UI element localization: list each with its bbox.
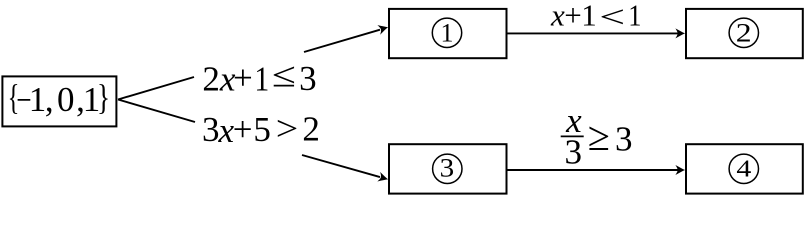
svg-text:x: x [550,0,565,33]
svg-text:3: 3 [615,120,633,159]
svg-text:2: 2 [202,59,220,98]
svg-text:3: 3 [565,133,583,172]
svg-text:4: 4 [736,155,751,182]
svg-text:}: } [97,76,110,117]
svg-text:+: + [233,59,253,98]
svg-text:1: 1 [254,60,269,99]
svg-text:3: 3 [299,59,317,98]
svg-text:≤: ≤ [272,56,296,95]
svg-text:>: > [276,110,299,148]
svg-text:1: 1 [581,0,597,33]
svg-text:3: 3 [202,110,220,149]
svg-text:+: + [233,110,253,149]
svg-text:5: 5 [253,110,271,149]
svg-text:≥: ≥ [588,114,610,159]
svg-text:1: 1 [441,18,454,47]
svg-text:<: < [599,0,625,34]
svg-text:+: + [564,0,581,33]
svg-text:3: 3 [440,153,455,182]
svg-text:,: , [45,80,54,119]
svg-text:2: 2 [736,19,752,48]
svg-text:0: 0 [57,80,75,119]
svg-text:1: 1 [628,0,641,33]
svg-text:1: 1 [29,80,47,119]
svg-text:2: 2 [302,110,320,149]
